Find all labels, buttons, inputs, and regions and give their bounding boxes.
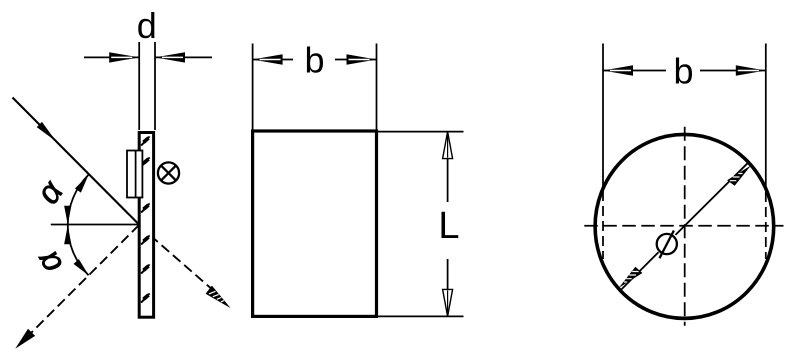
diameter diagonal line xyxy=(620,162,748,290)
hidden line left (dashed) xyxy=(602,191,604,259)
angle arc upper xyxy=(68,175,89,225)
svg-text:b: b xyxy=(304,40,324,81)
arrow b right xyxy=(347,54,377,64)
svg-text:L: L xyxy=(438,205,459,247)
dimension line b xyxy=(253,59,377,61)
mirror round front view circle xyxy=(595,134,774,318)
holder pad on back xyxy=(127,151,142,198)
horizontal reference line xyxy=(51,224,139,226)
arrow b right xyxy=(736,65,766,75)
mirror front view rectangle xyxy=(253,131,377,316)
dimension line d right tail xyxy=(155,56,212,58)
svg-text:b: b xyxy=(673,51,693,92)
mirror plate (side view) xyxy=(139,133,153,318)
plate hatch mark 2 xyxy=(141,158,150,167)
arc arrow upper at ray xyxy=(75,173,92,193)
vertical centerline xyxy=(684,127,686,326)
extension line d left xyxy=(138,42,140,130)
arc arrow lower at line xyxy=(64,225,71,244)
arrow L top (outline) xyxy=(443,132,453,159)
arc arrow lower at ray xyxy=(74,259,92,278)
plate hatch mark 4 xyxy=(141,236,150,245)
label alpha lower xyxy=(27,244,69,280)
holder internal line xyxy=(135,151,137,198)
reflected ray arrow xyxy=(12,329,35,352)
extension line b left (solid part) xyxy=(602,44,604,190)
dimension line L xyxy=(447,132,449,317)
incident ray xyxy=(13,98,140,225)
extension line L bottom xyxy=(378,315,464,317)
transmitted ray hatched arrow xyxy=(206,286,231,309)
arrow b left xyxy=(603,65,633,75)
diameter symbol xyxy=(657,231,677,259)
direction symbol (circle with X) xyxy=(158,162,179,183)
plate hatch mark 5 xyxy=(141,265,150,274)
extension line b right (solid part) xyxy=(765,44,767,191)
plate hatch mark 1 xyxy=(141,137,150,146)
reflected ray (dashed, down-left) xyxy=(21,225,139,343)
arrow L bottom (outline) xyxy=(443,289,453,316)
arc arrow upper at line xyxy=(64,206,71,225)
plate hatch mark 3 xyxy=(141,204,150,213)
plate hatch mark 6 xyxy=(141,294,150,303)
arrow b left xyxy=(253,54,283,64)
extension line d right xyxy=(154,42,156,130)
dimension line d left tail xyxy=(84,56,139,58)
incident ray arrow xyxy=(37,122,59,144)
label alpha upper xyxy=(29,173,71,211)
transmitted ray (dashed, down-right) xyxy=(139,226,214,292)
hidden line right (dashed) xyxy=(765,192,767,259)
arrow d left (points right) xyxy=(109,52,139,62)
extension line b right xyxy=(376,44,378,130)
diameter hatched arrow upper-right xyxy=(727,165,751,185)
svg-text:d: d xyxy=(137,5,157,46)
diameter hatched arrow lower-left xyxy=(619,267,643,288)
dimension line b xyxy=(603,70,766,72)
arrow d right (points left) xyxy=(155,52,185,62)
extension line b left xyxy=(252,44,254,130)
extension line L top xyxy=(378,131,464,133)
angle arc lower xyxy=(68,225,89,275)
horizontal centerline xyxy=(584,225,783,227)
